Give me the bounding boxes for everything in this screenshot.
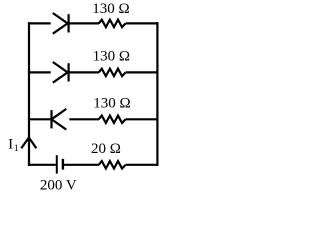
wire: branch 2 right segment (126, 71, 159, 73)
wire: branch 3 middle segment (69, 118, 99, 120)
resistor R 20 ohm branch 4 (99, 161, 126, 168)
diode branch 1 (anode arrow) (53, 13, 68, 34)
svg-text:20 Ω: 20 Ω (91, 141, 121, 157)
svg-text:I1: I1 (8, 137, 19, 155)
resistor R 130 ohm branch 1 (99, 20, 126, 27)
current arrow I1 on left bus (21, 138, 36, 149)
resistor R 130 ohm branch 2 (99, 69, 126, 76)
svg-text:200 V: 200 V (40, 178, 77, 194)
wire: branch 3 left segment (28, 118, 51, 120)
diode branch 2 cathode bar (67, 63, 69, 81)
wire: branch 4 middle segment (64, 164, 99, 166)
battery 200V positive plate (long) (56, 155, 58, 173)
diode branch 3 cathode bar (points left) (50, 110, 52, 128)
wire: branch 4 left segment (28, 164, 56, 166)
wire: right vertical bus (156, 22, 158, 166)
battery 200V negative plate (short) (62, 159, 64, 170)
wire: branch 2 left segment (28, 71, 51, 73)
wire: left vertical bus (28, 22, 30, 166)
svg-text:130 Ω: 130 Ω (93, 95, 130, 111)
diode branch 3 (anode arrow pointing left) (52, 109, 67, 130)
wire: branch 3 right segment (126, 118, 159, 120)
svg-text:130 Ω: 130 Ω (92, 1, 129, 17)
wire: branch 4 right segment (126, 164, 159, 166)
wire: branch 1 middle segment (69, 22, 99, 24)
wire: branch 2 middle segment (69, 71, 99, 73)
wire: branch 1 left segment (28, 22, 51, 24)
diode branch 1 cathode bar (67, 14, 69, 32)
svg-text:130 Ω: 130 Ω (93, 48, 130, 64)
wire: branch 1 right segment (126, 22, 159, 24)
diode branch 2 (anode arrow) (53, 62, 68, 83)
resistor R 130 ohm branch 3 (99, 116, 126, 123)
